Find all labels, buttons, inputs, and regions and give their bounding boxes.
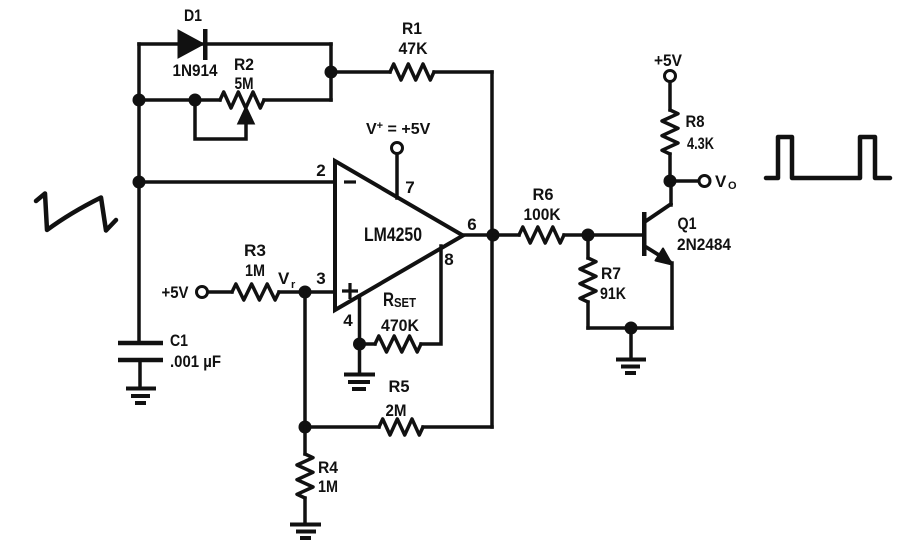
svg-text:4: 4 xyxy=(343,311,353,330)
svg-text:1M: 1M xyxy=(245,261,265,280)
wire pot rail xyxy=(139,98,331,102)
svg-text:V: V xyxy=(715,172,727,191)
wire base of Q1 xyxy=(588,233,643,237)
Vo output terminal xyxy=(699,172,737,192)
transistor Q1 2N2484 xyxy=(642,181,731,328)
svg-text:R4: R4 xyxy=(318,458,338,477)
junction dot ground node xyxy=(625,322,638,335)
pin 4 wire xyxy=(358,296,362,344)
svg-text:4.3K: 4.3K xyxy=(687,134,715,153)
svg-text:470K: 470K xyxy=(381,316,420,335)
svg-text:6: 6 xyxy=(467,215,476,234)
junction dot pot wiper loop xyxy=(189,94,202,107)
resistor R8 xyxy=(662,83,715,181)
ground under C1 xyxy=(126,389,156,404)
resistor R5 xyxy=(305,377,492,435)
svg-text:47K: 47K xyxy=(399,39,429,58)
svg-text:V+ = +5V: V+ = +5V xyxy=(366,120,431,138)
junction dot left rail / pot rail xyxy=(133,94,146,107)
op-amp U1 LM4250 xyxy=(335,161,463,310)
svg-text:R5: R5 xyxy=(389,377,410,396)
wire inverting input (pin 2) xyxy=(139,180,335,184)
diode D1 xyxy=(173,6,218,80)
resistor R7 xyxy=(580,235,627,328)
svg-text:2N2484: 2N2484 xyxy=(677,235,731,254)
svg-text:C1: C1 xyxy=(170,331,188,350)
wire Vr node vertical xyxy=(303,292,307,427)
ground under RSET xyxy=(344,344,375,389)
svg-text:7: 7 xyxy=(405,178,414,197)
svg-text:R3: R3 xyxy=(244,241,266,260)
junction dot collector node xyxy=(664,175,677,188)
ground under R4 xyxy=(290,525,321,539)
junction dot output node xyxy=(487,229,500,242)
sawtooth waveform symbol xyxy=(36,194,116,231)
svg-text:R6: R6 xyxy=(533,185,554,204)
svg-text:SET: SET xyxy=(394,296,416,310)
capacitor C1 xyxy=(118,331,221,388)
resistor R1 xyxy=(331,19,492,80)
square wave output symbol xyxy=(766,137,890,178)
pin 7 label xyxy=(405,178,414,197)
junction dot R1 left xyxy=(325,66,338,79)
svg-text:R7: R7 xyxy=(601,264,621,283)
junction dot R6/R7/base node xyxy=(582,229,595,242)
wire op-amp output pin 6 xyxy=(463,233,494,237)
svg-text:2: 2 xyxy=(316,161,325,180)
pin 8 label xyxy=(444,250,453,269)
pin 2 label xyxy=(316,161,325,180)
resistor R3 xyxy=(209,241,335,300)
V+ supply terminal (pin 7) xyxy=(366,120,431,198)
resistor R4 xyxy=(297,427,338,524)
ground under Q1 emitter xyxy=(616,328,646,373)
junction dot R5/R4 node xyxy=(299,421,312,434)
wire emitter/R7 bottom rail xyxy=(588,326,672,330)
+5V terminal at R8 xyxy=(654,51,683,82)
svg-text:R2: R2 xyxy=(234,55,254,74)
junction dot left rail / pin 2 xyxy=(133,176,146,189)
wire to Vo terminal xyxy=(670,179,698,183)
svg-text:100K: 100K xyxy=(524,205,562,224)
resistor R6 xyxy=(494,185,587,243)
pin 3 label xyxy=(316,269,325,288)
svg-text:.001 µF: .001 µF xyxy=(170,352,221,371)
svg-text:91K: 91K xyxy=(600,284,627,303)
svg-text:5M: 5M xyxy=(235,74,254,93)
svg-text:+5V: +5V xyxy=(162,283,190,302)
+5V terminal at R3 xyxy=(162,283,208,302)
svg-text:LM4250: LM4250 xyxy=(364,225,422,246)
svg-text:1M: 1M xyxy=(318,477,338,496)
svg-text:Q1: Q1 xyxy=(678,214,697,233)
svg-text:R8: R8 xyxy=(686,112,705,131)
svg-text:1N914: 1N914 xyxy=(173,61,218,80)
node Vr label xyxy=(278,269,296,291)
pin 8 wire xyxy=(421,246,441,344)
svg-text:+5V: +5V xyxy=(654,51,683,70)
svg-text:R1: R1 xyxy=(402,19,422,38)
svg-text:8: 8 xyxy=(444,250,453,269)
junction dot pin4/RSET xyxy=(353,338,366,351)
junction dot Vr node xyxy=(299,286,312,299)
svg-text:2M: 2M xyxy=(386,401,407,420)
wire top rail xyxy=(139,42,331,46)
wire right vertical of D1/R2 loop xyxy=(329,44,333,100)
svg-text:O: O xyxy=(728,180,737,192)
svg-text:3: 3 xyxy=(316,269,325,288)
resistor RSET 470K xyxy=(360,290,422,352)
pin 6 label xyxy=(467,215,476,234)
svg-text:r: r xyxy=(291,279,296,291)
svg-text:V: V xyxy=(278,269,290,288)
wire right feedback rail vertical xyxy=(490,72,494,427)
potentiometer R2 xyxy=(195,55,264,139)
svg-text:D1: D1 xyxy=(184,6,202,25)
wire left rail vertical xyxy=(137,44,141,342)
svg-text:R: R xyxy=(383,290,394,311)
pin 4 label xyxy=(343,311,353,330)
